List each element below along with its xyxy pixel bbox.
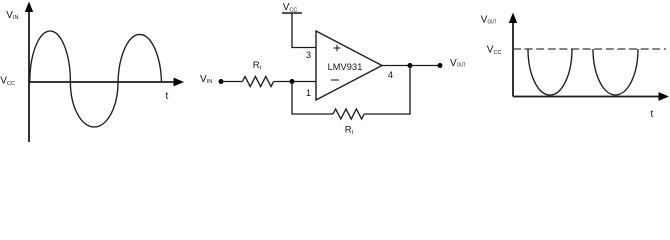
resistor RI (input) [242, 77, 273, 87]
wire horizontal axis (left graph) [29, 78, 184, 87]
svg-text:VOUT: VOUT [450, 58, 466, 69]
op-amp U1 LMV931 triangle [316, 31, 382, 100]
power VCC rail bar [282, 12, 302, 14]
node t axis label (right graph) [651, 109, 654, 120]
node VIN terminal dot [219, 79, 224, 84]
svg-text:VOUT: VOUT [481, 15, 497, 26]
node VIN axis label [6, 10, 18, 21]
pin 1 label [306, 88, 311, 98]
pin 4 label [388, 70, 393, 80]
node VCC power label [283, 2, 298, 14]
node junction dot at inverting input [290, 79, 295, 84]
op-amp plus input marking [334, 45, 341, 52]
svg-text:1: 1 [306, 88, 311, 98]
wire output [382, 65, 440, 67]
svg-text:VCC: VCC [283, 2, 298, 14]
wire output waveform U curve 1 [528, 49, 572, 95]
wire sine curve (input waveform) [30, 31, 162, 127]
label Rf (feedback resistor) [345, 124, 354, 136]
node VOUT terminal dot [438, 63, 443, 68]
wire horizontal axis (right graph) [513, 92, 669, 101]
svg-text:3: 3 [306, 50, 311, 60]
svg-text:VCC: VCC [487, 44, 502, 56]
op-amp device label LMV931 [328, 62, 363, 72]
node t axis label (left graph) [166, 91, 169, 102]
svg-text:t: t [651, 109, 654, 120]
svg-text:VIN: VIN [200, 74, 212, 85]
wire feedback left segment [292, 82, 333, 115]
wire vertical axis (right graph) [509, 13, 517, 97]
svg-text:VCC: VCC [0, 75, 15, 87]
node VCC axis label (left graph) [0, 75, 15, 87]
svg-text:RI: RI [345, 124, 354, 136]
wire RI to inverting input [274, 81, 316, 83]
svg-text:4: 4 [388, 70, 393, 80]
resistor Rf (feedback) [333, 109, 364, 119]
wire vertical axis (left graph) [25, 2, 33, 143]
svg-text:LMV931: LMV931 [328, 62, 363, 72]
wire output waveform U curve 2 [593, 49, 638, 95]
wire VIN to RI [221, 81, 242, 83]
node VIN terminal label [200, 74, 212, 85]
wire VCC to non-inverting input [292, 13, 316, 48]
svg-text:RI: RI [253, 60, 262, 72]
node VOUT terminal label [450, 58, 466, 69]
node VCC level label (right graph) [487, 44, 502, 56]
node VOUT axis label (right graph) [481, 15, 497, 26]
pin 3 label [306, 50, 311, 60]
wire feedback right segment [364, 66, 410, 115]
label RI (input resistor) [253, 60, 262, 72]
wire VCC dashed reference line [513, 48, 666, 50]
svg-text:t: t [166, 91, 169, 102]
node output junction dot [408, 63, 413, 68]
svg-text:VIN: VIN [6, 10, 18, 21]
op-amp minus input marking [331, 79, 339, 81]
